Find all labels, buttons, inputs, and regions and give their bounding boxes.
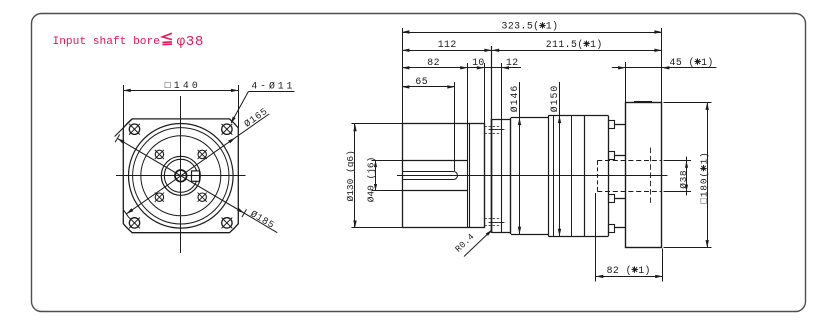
svg-text:1): 1): [546, 21, 559, 32]
dimension 112 / 211.5 line: [402, 50, 662, 52]
hidden input bore dashed top: [597, 160, 662, 162]
dimension square140 extension lines: [123, 85, 125, 128]
front view square flange outline with rounded corners dia185: [123, 119, 238, 233]
dia40 bore bottom line: [402, 190, 468, 192]
svg-text:82: 82: [427, 57, 440, 68]
corner bolt hole 1 of 4-dia11: [129, 124, 139, 134]
dimension 82(*1) bottom line: [596, 276, 663, 278]
svg-text:Ø40 (j6): Ø40 (j6): [366, 157, 377, 203]
small tapped hole 3: [155, 193, 163, 201]
dimension dia40(j6) vertical line: [375, 160, 377, 191]
front view center hole: [175, 170, 187, 182]
svg-text:45 (: 45 (: [670, 57, 695, 68]
dimension dia150 vertical line: [559, 82, 561, 236]
dimension dia146 vertical line: [519, 82, 521, 234]
leader underline 4-dia11: [248, 91, 294, 93]
extension line x595.9 bottom: [595, 193, 597, 282]
svg-text:Input shaft bore: Input shaft bore: [53, 36, 160, 48]
front view horizontal centerline: [116, 175, 246, 177]
svg-text:Ø130 (g6): Ø130 (g6): [345, 150, 356, 201]
corner bolt hole 2 of 4-dia11: [222, 124, 232, 134]
svg-text:Ø38: Ø38: [678, 170, 689, 189]
svg-text:112: 112: [438, 39, 457, 50]
svg-text:4-Ø11: 4-Ø11: [251, 80, 295, 91]
front view chamfer circle: [133, 128, 229, 224]
front view hub bore circle dia40: [164, 159, 197, 192]
svg-text:□140: □140: [165, 80, 201, 91]
arc tick at dia185 top-left arrow: [115, 135, 120, 143]
svg-text:12: 12: [506, 57, 519, 68]
svg-text:65: 65: [415, 76, 428, 87]
groove detail upper: [489, 129, 505, 131]
leader 4-dia11: [231, 92, 248, 123]
dimension 82/10/12 line: [402, 67, 521, 69]
thick edge line at x492: [491, 119, 493, 233]
dia40 bore top line: [402, 160, 468, 162]
small tapped hole 2: [198, 150, 206, 158]
ring section 12mm outline: [492, 119, 511, 121]
bore depth dashed vertical centerline: [650, 148, 652, 205]
dimension dia165 diagonal line with arrows: [126, 114, 269, 214]
dimension dia38 vertical line: [686, 157, 688, 196]
hidden input bore dashed bottom: [597, 191, 662, 193]
corner bolt hole 3 of 4-dia11: [129, 218, 139, 228]
extension lines square180 right: [664, 102, 712, 104]
extension line x625.5 for 45: [625, 62, 627, 103]
bolt tabs between housing and motor flange: [609, 121, 615, 129]
arc tick at dia185 bottom-right arrow: [242, 209, 247, 217]
top-left corner chamfer line with overshoot: [115, 119, 133, 137]
svg-text:211.5(: 211.5(: [546, 39, 584, 50]
front view vertical centerline: [180, 96, 182, 253]
corner bolt hole 4 of 4-dia11: [222, 218, 232, 228]
arc tick at dia165 lower-left arrow: [124, 210, 129, 217]
front view middle circle: [141, 136, 221, 216]
small tapped hole 4: [198, 193, 206, 201]
dia146 cylinder outline: [511, 117, 548, 119]
front view keyway pocket: [192, 171, 200, 181]
svg-text:1): 1): [701, 57, 714, 68]
seam lines output section: [467, 124, 469, 228]
dia146 cylinder right edge: [548, 116, 550, 236]
red less-or-equal symbol: [162, 33, 172, 39]
front view hub outer circle: [161, 156, 200, 195]
extension line x662.6 bottom: [662, 249, 664, 282]
extension lines dia40 left: [372, 160, 403, 162]
ring section 10mm vertical edge: [484, 124, 486, 228]
extension lines dia130 left: [352, 123, 403, 125]
side view center axis: [397, 175, 668, 177]
svg-text:Ø146: Ø146: [509, 85, 520, 113]
side view output section body dia130: [403, 124, 485, 228]
dia150 seam lines: [553, 116, 555, 236]
dimension 45 line: [612, 67, 717, 69]
dimension square140 line with arrows: [123, 90, 238, 92]
dimension dia130(g6) vertical line: [354, 124, 356, 228]
groove detail lower: [489, 222, 505, 224]
keyway slot in bore: [402, 172, 458, 180]
svg-text:1): 1): [638, 265, 651, 276]
svg-text:φ38: φ38: [177, 34, 204, 50]
small tapped hole 1: [155, 150, 163, 158]
svg-text:Ø150: Ø150: [549, 85, 560, 113]
dia150 section right edge: [608, 116, 610, 236]
motor flange top accent line: [634, 101, 652, 103]
extension line x491.8 top: [491, 46, 493, 119]
dimension dia185 diagonal line with arrows: [117, 138, 277, 232]
extension line right x661.8: [661, 28, 663, 103]
dia150 section outline: [548, 115, 608, 117]
svg-text:323.5(: 323.5(: [502, 21, 540, 32]
dimension 323.5 line: [402, 32, 662, 34]
svg-text:10: 10: [472, 57, 485, 68]
svg-text:□180(: □180(: [699, 171, 710, 204]
dimension square180 vertical line: [707, 103, 709, 248]
extension line x501.7 top: [501, 63, 503, 119]
motor flange block square180: [626, 103, 662, 248]
ring section 12mm right edge: [501, 119, 503, 233]
leader R0.4: [464, 230, 492, 256]
svg-text:1): 1): [699, 151, 710, 164]
hidden bore end dashed vertical: [597, 161, 599, 192]
svg-text:1): 1): [590, 39, 603, 50]
extension line x467.6 top: [467, 63, 469, 124]
dimension 65 line: [402, 86, 455, 88]
extension line left x402: [402, 28, 404, 124]
svg-text:82 (: 82 (: [607, 265, 632, 276]
extension line x484.2 top: [484, 63, 486, 124]
dia146 cylinder left edge: [510, 118, 512, 234]
extension lines dia38 right: [664, 160, 692, 162]
front view pilot circle dia130: [129, 124, 234, 229]
extension line x454.7 for 65: [454, 82, 456, 171]
